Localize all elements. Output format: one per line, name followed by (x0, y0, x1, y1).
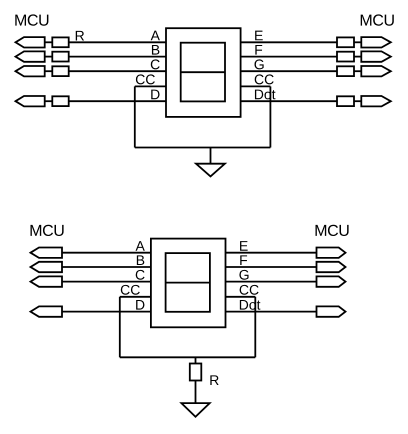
MCU pin connector P4-Dot (bottom-right) (317, 306, 346, 316)
7-segment display DS1 middle segment (181, 71, 225, 73)
pin label D (DS1) (151, 90, 159, 100)
wire CC bottom bus (bottom circuit) (120, 356, 256, 358)
wire R to P2-F (354, 56, 361, 58)
MCU pin connector P4-G (bottom-right) (317, 276, 346, 286)
wire R to display DS1 pin C (69, 70, 166, 72)
wire CC right vertical drop (top circuit) (269, 86, 271, 147)
resistor R (segment E, top) (337, 37, 354, 47)
wire ground stem (top circuit) (210, 148, 212, 164)
wire CC left vertical drop (top circuit) (134, 86, 136, 147)
resistor R (segment G, top) (337, 66, 354, 76)
wire display DS2 pin G to P4-G (226, 281, 317, 283)
pin label Dot (DS2 decimal point) (240, 300, 261, 310)
pin label B (DS1) (152, 45, 159, 55)
wire P1-D to RD (45, 100, 53, 102)
MCU pin connector P3-D (bottom-left) (31, 306, 63, 316)
pin label G (DS1) (255, 59, 264, 69)
pin label E (DS1) (255, 31, 263, 41)
value label R (top series resistors) (76, 31, 84, 41)
7-segment display DS1 digit outline (181, 43, 225, 102)
7-segment display DS2 digit outline (166, 253, 210, 312)
resistor R (segment C, top) (52, 66, 68, 76)
wire CC left to display DS1 (135, 85, 166, 87)
wire P3-A to display DS2 pin A (62, 252, 151, 254)
MCU pin connector P2-F (top-right) (361, 51, 391, 61)
MCU pin connector P3-B (bottom-left) (31, 262, 63, 272)
wire CC right from display DS2 (226, 296, 256, 298)
MCU pin connector P1-A (top-left) (16, 37, 45, 47)
pin label F (DS2) (240, 255, 247, 265)
7-segment display DS1 body (166, 28, 241, 117)
pin label E (DS2) (240, 241, 248, 251)
pin label CC (DS1 right common cathode) (255, 74, 274, 84)
MCU pin connector P2-E (top-right) (361, 37, 391, 47)
wire display DS1 pin Dot to RDot (241, 100, 337, 102)
wire P3-D to display DS2 pin D (62, 311, 151, 313)
pin label B (DS2) (137, 255, 144, 265)
MCU pin connector P2-G (top-right) (361, 66, 391, 76)
ground (top circuit) (196, 164, 225, 177)
MCU pin connector P1-B (top-left) (16, 51, 45, 61)
pin label A (DS2) (136, 241, 145, 251)
wire display DS2 pin Dot to P4-Dot (226, 311, 317, 313)
wire P3-B to display DS2 pin B (62, 266, 151, 268)
wire R to P2-Dot (354, 100, 361, 102)
wire CC left to display DS2 (120, 296, 151, 298)
pin label A (DS1) (151, 31, 160, 41)
7-segment display DS2 body (151, 239, 226, 328)
pin label Dot (DS1 decimal point) (255, 90, 276, 100)
MCU pin connector P2-Dot (top-right) (361, 96, 391, 106)
node MCU (top-right) (361, 14, 394, 25)
wire R to display DS1 pin D (69, 100, 166, 102)
wire CC left vertical drop (bottom circuit) (119, 297, 121, 358)
wire CC right from display DS1 (241, 85, 271, 87)
node MCU (bottom-left) (31, 225, 64, 236)
pin label C (DS2) (136, 270, 145, 280)
wire R to display DS1 pin A (69, 41, 166, 43)
wire R to P2-E (354, 41, 361, 43)
wire P1-C to RC (45, 70, 53, 72)
pin label G (DS2) (239, 270, 248, 280)
node MCU (top-left) (15, 14, 48, 25)
7-segment display DS2 middle segment (166, 282, 210, 284)
wire R to P2-G (354, 70, 361, 72)
resistor R (segment A, top) (52, 37, 68, 47)
MCU pin connector P1-D (top-left) (16, 96, 45, 106)
wire CC bottom bus (top circuit) (135, 147, 271, 149)
MCU pin connector P1-C (top-left) (16, 66, 45, 76)
wire display DS1 pin E to RE (241, 41, 337, 43)
node MCU (bottom-right) (316, 225, 349, 236)
resistor R (segment Dot, top) (337, 96, 354, 106)
wire P1-B to RB (45, 56, 53, 58)
resistor R (common cathode, bottom circuit) (190, 364, 202, 381)
wire P3-C to display DS2 pin C (62, 281, 151, 283)
wire display DS2 pin E to P4-E (226, 252, 317, 254)
wire bus to resistor R (common cathode) (195, 357, 197, 363)
value label R (common cathode resistor) (210, 375, 218, 385)
wire display DS1 pin F to RF (241, 56, 337, 58)
MCU pin connector P4-F (bottom-right) (317, 262, 346, 272)
pin label CC (DS1 left common cathode) (136, 74, 155, 84)
wire resistor R to ground (195, 381, 197, 404)
pin label D (DS2) (136, 300, 144, 310)
wire CC right vertical drop (bottom circuit) (254, 297, 256, 358)
resistor R (segment D, top) (52, 96, 68, 106)
wire P1-A to RA (45, 41, 53, 43)
MCU pin connector P4-E (bottom-right) (317, 248, 346, 258)
pin label CC (DS2 left common cathode) (121, 285, 140, 295)
pin label CC (DS2 right common cathode) (240, 285, 259, 295)
pin label F (DS1) (255, 45, 262, 55)
resistor R (segment B, top) (52, 52, 68, 62)
resistor R (segment F, top) (337, 52, 354, 62)
wire display DS1 pin G to RG (241, 70, 337, 72)
wire R to display DS1 pin B (69, 56, 166, 58)
MCU pin connector P3-A (bottom-left) (31, 248, 63, 258)
wire display DS2 pin F to P4-F (226, 266, 317, 268)
ground (bottom circuit) (181, 403, 209, 417)
pin label C (DS1) (151, 59, 160, 69)
MCU pin connector P3-C (bottom-left) (31, 276, 63, 286)
